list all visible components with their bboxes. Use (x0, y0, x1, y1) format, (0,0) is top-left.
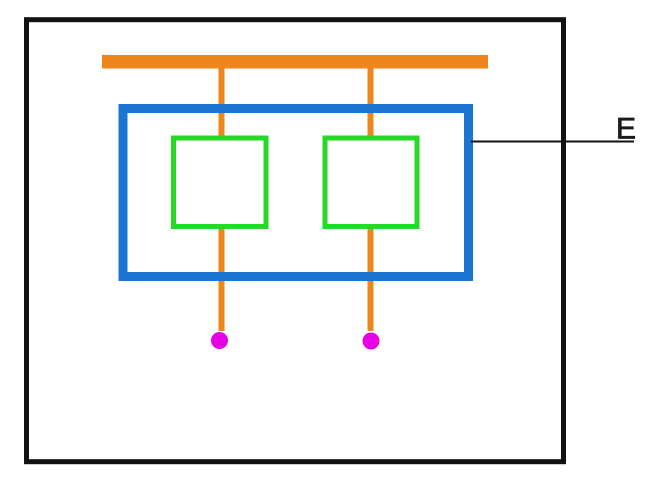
terminal dot 2 (363, 333, 380, 350)
outer frame (27, 20, 564, 462)
wire: orange drop 2 (368, 60, 374, 331)
enclosure E (123, 109, 469, 277)
leader line to label E (471, 141, 634, 143)
device box 2 (325, 138, 417, 227)
terminal dot 1 (211, 332, 228, 349)
svg-text:E: E (616, 113, 636, 146)
device box 1 (174, 138, 267, 227)
wire: orange drop 1 (219, 60, 225, 331)
busbar (102, 55, 488, 69)
